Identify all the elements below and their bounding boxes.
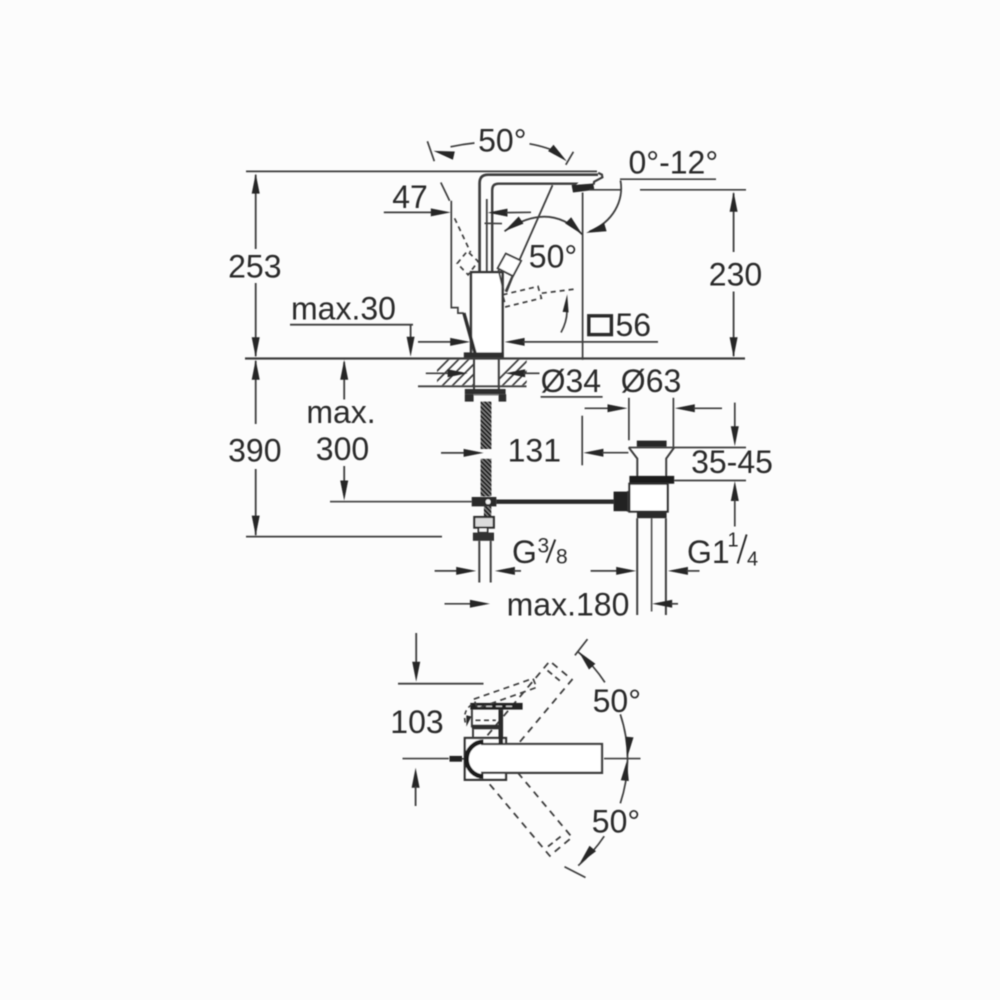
drain neck outline [629, 448, 674, 477]
spout centerline left + supply stub [403, 758, 449, 760]
faucet spout outer contour [480, 175, 598, 272]
horizontal pop-up rod reference line (max.300 lower extent) [330, 501, 472, 503]
spout centerline right [604, 758, 641, 760]
svg-text:300: 300 [316, 431, 369, 467]
hose below fitting [484, 506, 491, 517]
water stream projection line from spout tip [582, 193, 584, 360]
top reference line (253 upper extent) [246, 170, 597, 172]
svg-text:G: G [512, 534, 537, 570]
swing arc 50+50 [578, 652, 605, 682]
hose crimp collar [474, 517, 494, 528]
svg-text:230: 230 [709, 256, 762, 292]
svg-text:131: 131 [508, 433, 561, 469]
drain flange plug (top) [637, 441, 667, 447]
svg-text:50°: 50° [593, 683, 641, 719]
0-12 angle arc [590, 181, 622, 232]
side view mounting block [465, 738, 506, 780]
lever knob dashed (tilted open position) [457, 251, 478, 275]
svg-text:50°: 50° [592, 803, 640, 839]
103 upper reference line [398, 683, 484, 685]
threaded shank below counter [473, 359, 475, 390]
svg-text:0°-12°: 0°-12° [629, 144, 719, 180]
spout outlet face (aerator) [572, 184, 594, 192]
lever axis diagonal [506, 185, 553, 291]
svg-text:390: 390 [228, 433, 281, 469]
svg-text:253: 253 [228, 249, 281, 285]
lever dashed leader (open position) [455, 218, 471, 252]
flexible supply hose (braided) upper segment [481, 402, 492, 449]
svg-text:Ø63: Ø63 [621, 363, 681, 399]
svg-text:max.: max. [306, 394, 375, 430]
dimension 390 [255, 361, 257, 424]
lever dashed (lifted flat position) [503, 286, 542, 306]
basin seat line / 35-45 upper reference [629, 447, 746, 449]
dimension 253 [255, 175, 257, 249]
swing arc arrowheads at centerline [626, 737, 634, 757]
mounting washer plate [465, 389, 506, 394]
svg-text:Ø34: Ø34 [541, 363, 601, 399]
dimension G1 1/4 [591, 570, 618, 572]
svg-text:max.30: max.30 [291, 291, 396, 327]
47 extension line with step to body [441, 183, 450, 201]
dashed spout rotated -50 (lower position) [471, 744, 572, 856]
right lock nut [499, 394, 507, 401]
lever tilt dashed mini arc [465, 705, 472, 723]
svg-text:max.180: max.180 [507, 587, 630, 623]
svg-text:47: 47 [392, 179, 428, 215]
dashed leader from flat lever [542, 289, 578, 293]
counter top line [245, 357, 745, 359]
dimension G3/8 [435, 570, 459, 572]
drain tailpipe [636, 518, 638, 615]
0-12 label underline [620, 178, 716, 180]
collar neck [478, 528, 487, 533]
bottom reference line (390 lower extent) [246, 536, 442, 538]
lever stem legs to pivot [498, 270, 503, 291]
faucet body (cartridge housing) [471, 272, 503, 356]
side view lever top plate [470, 703, 522, 710]
spout rounded cap (left end) [467, 742, 484, 777]
side view dashed lever (raised) [474, 678, 537, 708]
svg-text:35-45: 35-45 [691, 444, 773, 480]
35-45 lower reference line [674, 480, 746, 482]
rod coupler white block [628, 492, 639, 510]
pop-up rod inside riser [486, 199, 488, 272]
drain lower nut [637, 512, 667, 519]
svg-text:G1: G1 [687, 534, 730, 570]
spout tip right face [594, 173, 603, 185]
svg-text:8: 8 [556, 546, 568, 569]
spout inner contour [492, 184, 575, 272]
square 56 symbol [589, 316, 612, 335]
left lock nut [465, 394, 474, 401]
svg-text:56: 56 [616, 307, 652, 343]
outlet 0-deg reference line [589, 189, 621, 191]
swing arc top tick and arrow [575, 639, 588, 655]
drain body [629, 484, 667, 512]
drain rubber washer [629, 476, 674, 484]
svg-text:103: 103 [390, 704, 443, 740]
side view body column [471, 710, 473, 728]
flexible supply hose (braided) lower segment [481, 459, 492, 497]
svg-text:3: 3 [538, 535, 550, 558]
drain tailpipe centerline [651, 518, 653, 611]
horizontal pop-up rod to drain [496, 500, 613, 504]
counter bottom line [418, 385, 527, 387]
dashed spout rotated +50 (upper position) [471, 661, 572, 773]
svg-text:50°: 50° [529, 238, 577, 274]
pop-up rod ball fitting at hose [472, 497, 497, 506]
swing arc bottom tick and arrow [565, 867, 586, 878]
svg-text:50°: 50° [478, 123, 526, 159]
svg-text:4: 4 [747, 549, 758, 571]
svg-text:1: 1 [728, 530, 739, 552]
lever knob solid (rest position) [498, 254, 521, 277]
dimension 103 [415, 633, 417, 663]
lever lift arrow [561, 312, 567, 333]
rod coupler black block [614, 492, 628, 512]
lever angle 50 deg arc [485, 222, 503, 224]
dimension 230 [733, 193, 735, 252]
body base plate on counter [464, 352, 504, 357]
side view spout body [481, 744, 602, 773]
G3/8 hose nut [473, 533, 494, 541]
dimension square-56 [418, 341, 452, 343]
G3/8 threaded pipe [478, 541, 480, 583]
